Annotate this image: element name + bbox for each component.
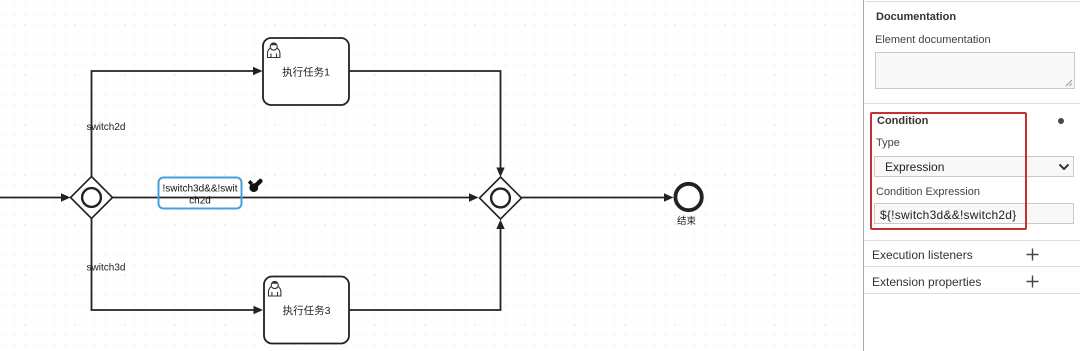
svg-text:执行任务1: 执行任务1 — [282, 66, 330, 79]
svg-text:结束: 结束 — [677, 215, 697, 227]
svg-text:ch2d: ch2d — [189, 196, 211, 207]
svg-text:!switch3d&&!swit: !switch3d&&!swit — [162, 184, 237, 195]
svg-text:执行任务3: 执行任务3 — [283, 304, 331, 317]
svg-text:switch2d: switch2d — [87, 122, 126, 133]
svg-text:switch3d: switch3d — [87, 263, 126, 274]
